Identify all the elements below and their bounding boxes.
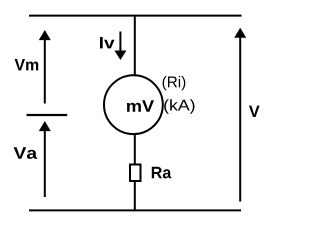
label Ra — [152, 167, 172, 179]
label V — [249, 106, 260, 117]
label Iv — [100, 37, 115, 48]
meter U1: mV voltmeter circle — [104, 75, 163, 134]
label Vm — [15, 59, 39, 70]
label (Ri) internal resistance — [163, 76, 186, 90]
voltage arrow Vm pointing up — [44, 39, 46, 104]
wire top rail — [29, 15, 242, 17]
wire center vertical: top rail to meter — [134, 16, 136, 75]
voltage arrow V pointing up — [239, 37, 241, 202]
label mV — [127, 100, 154, 111]
current arrow Iv pointing down — [119, 32, 121, 53]
wire center vertical: meter to resistor — [134, 134, 136, 165]
node separator line between Vm and Va — [27, 114, 68, 116]
wire bottom rail — [29, 209, 241, 211]
voltage arrow Va pointing up — [44, 130, 46, 197]
label Va — [14, 147, 38, 159]
resistor Ra — [130, 165, 141, 182]
label (kA) — [164, 99, 194, 113]
wire center vertical: resistor to bottom rail — [134, 181, 136, 210]
